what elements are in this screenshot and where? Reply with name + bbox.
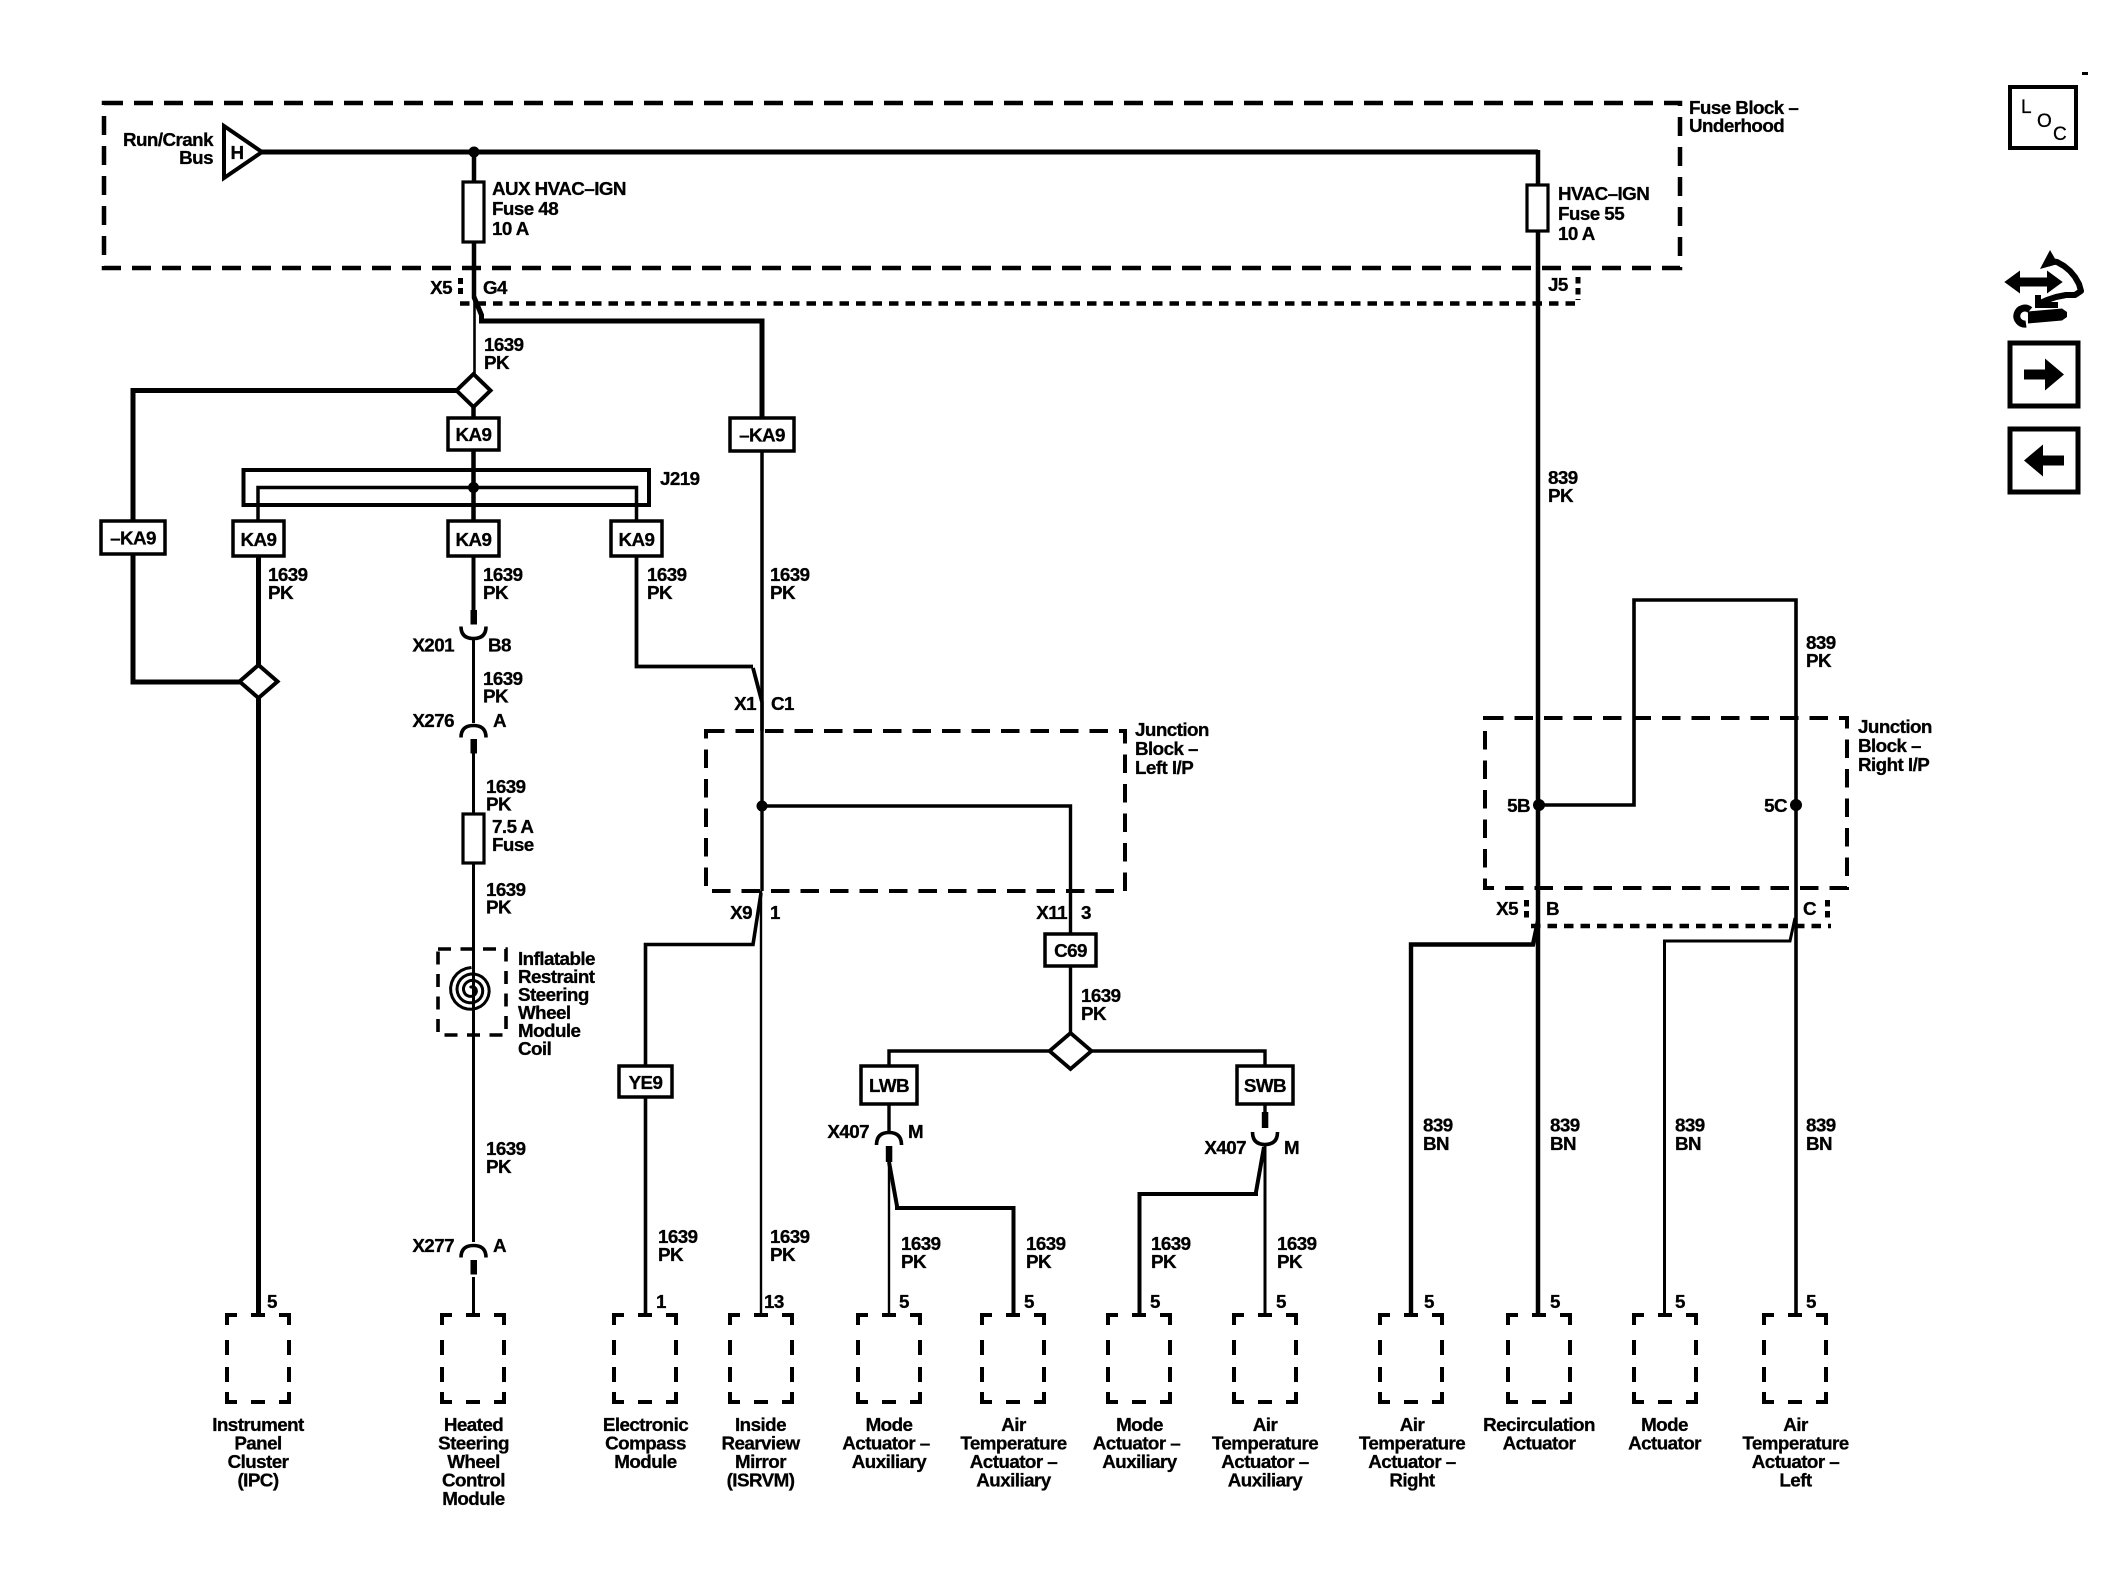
svg-text:X407: X407 xyxy=(827,1121,869,1142)
svg-text:5: 5 xyxy=(1276,1291,1286,1312)
net KA9 box 3 xyxy=(611,521,662,556)
wire -KA9 right down to X1 C1 xyxy=(760,451,764,731)
coil spiral xyxy=(451,968,490,1010)
svg-text:Module: Module xyxy=(442,1488,505,1509)
module box instrument panel cluster xyxy=(227,1315,289,1402)
svg-text:PK: PK xyxy=(484,352,510,373)
wire splice S2 to IPC xyxy=(256,698,261,1315)
wire C69 to splice S3 xyxy=(1069,966,1072,1034)
svg-text:5: 5 xyxy=(1024,1291,1034,1312)
splice diamond S2 xyxy=(240,665,278,698)
net SWB box xyxy=(1237,1066,1293,1104)
wire X407 right branch to mode actuator aux 2 xyxy=(1140,1147,1265,1315)
svg-text:5: 5 xyxy=(899,1291,909,1312)
wire ISRVM thin xyxy=(760,891,762,1315)
svg-text:YE9: YE9 xyxy=(629,1072,663,1093)
wire slant into C1 xyxy=(753,668,762,702)
svg-text:PK: PK xyxy=(647,582,673,603)
svg-text:BN: BN xyxy=(1423,1133,1449,1154)
wire bus corner down to fuse 55 xyxy=(1536,150,1541,185)
wire KA9-1 down to splice S2 xyxy=(256,556,261,665)
junction dot left IP xyxy=(757,801,768,812)
svg-text:C: C xyxy=(2053,124,2066,145)
net YE9 box xyxy=(619,1066,672,1097)
label air temperature actuator auxiliary 2 xyxy=(1212,1414,1318,1491)
connector J5 tick and label xyxy=(1548,274,1578,300)
module box air temperature actuator right xyxy=(1380,1315,1442,1402)
svg-text:B8: B8 xyxy=(488,635,511,656)
svg-text:PK: PK xyxy=(1026,1251,1052,1272)
label air temperature actuator left xyxy=(1742,1414,1848,1491)
svg-text:X201: X201 xyxy=(412,635,454,656)
connector X276 xyxy=(461,726,486,815)
svg-text:KA9: KA9 xyxy=(456,529,492,550)
connector X5 G4 dotted strip xyxy=(430,277,1576,304)
module box mode actuator auxiliary 1 xyxy=(858,1315,920,1402)
module box mode actuator xyxy=(1634,1315,1696,1402)
module box air temperature actuator auxiliary 2 xyxy=(1234,1315,1296,1402)
svg-text:13: 13 xyxy=(764,1291,784,1312)
svg-text:10 A: 10 A xyxy=(492,218,530,239)
wire KA9-2 down to X201 xyxy=(472,556,476,610)
svg-text:PK: PK xyxy=(658,1244,684,1265)
wire SWB to X407 xyxy=(1263,1104,1266,1112)
svg-text:C1: C1 xyxy=(771,693,794,714)
svg-text:3: 3 xyxy=(1081,902,1091,923)
svg-text:BN: BN xyxy=(1806,1133,1832,1154)
wire X9 slant branch to compass xyxy=(646,893,762,1066)
svg-text:C69: C69 xyxy=(1054,940,1087,961)
module box inside rearview mirror xyxy=(730,1315,792,1402)
wire fuse 55 down through J5 xyxy=(1536,231,1541,1315)
svg-text:X407: X407 xyxy=(1204,1137,1246,1158)
net LWB box xyxy=(861,1066,917,1104)
wire branch G4 to -KA9 right xyxy=(474,297,762,418)
connector X5 B C strip right xyxy=(1496,898,1831,926)
label instrument panel cluster xyxy=(212,1414,305,1491)
svg-text:PK: PK xyxy=(1806,650,1832,671)
svg-text:Actuator: Actuator xyxy=(1628,1433,1702,1454)
wire bus to fuse 48 xyxy=(472,152,477,182)
svg-text:M: M xyxy=(908,1121,923,1142)
svg-text:Junction: Junction xyxy=(1858,716,1932,737)
svg-text:KA9: KA9 xyxy=(241,529,277,550)
svg-text:5: 5 xyxy=(1424,1291,1434,1312)
svg-text:Junction: Junction xyxy=(1135,719,1209,740)
module box air temperature actuator auxiliary 1 xyxy=(982,1315,1044,1402)
svg-text:Fuse: Fuse xyxy=(492,834,534,855)
svg-text:X1: X1 xyxy=(734,693,756,714)
svg-text:PK: PK xyxy=(486,1156,512,1177)
net C69 box xyxy=(1045,934,1096,966)
fuse F48 xyxy=(463,182,484,242)
svg-text:Bus: Bus xyxy=(179,147,213,168)
splice diamond S3 xyxy=(1050,1033,1092,1069)
wire C1 through junction block xyxy=(760,702,763,806)
wire YE9 to compass module xyxy=(644,1097,648,1315)
net -KA9 right box xyxy=(730,418,794,451)
connector X407 right xyxy=(1253,1112,1278,1145)
LOC box icon xyxy=(2010,87,2076,148)
svg-text:Underhood: Underhood xyxy=(1689,115,1784,136)
svg-text:PK: PK xyxy=(770,582,796,603)
wire 5C down to C exit xyxy=(1794,805,1798,918)
wire X407 right to air temp aux 2 xyxy=(1264,1145,1267,1315)
svg-text:1: 1 xyxy=(770,902,780,923)
svg-text:5: 5 xyxy=(1675,1291,1685,1312)
svg-text:PK: PK xyxy=(770,1244,796,1265)
junction dot 5B xyxy=(1533,799,1545,811)
svg-text:SWB: SWB xyxy=(1244,1075,1286,1096)
svg-text:PK: PK xyxy=(483,582,509,603)
svg-text:(IPC): (IPC) xyxy=(237,1470,278,1491)
label mode actuator xyxy=(1628,1414,1702,1454)
svg-text:Block –: Block – xyxy=(1135,738,1198,759)
net KA9 box 1 xyxy=(233,521,284,556)
node H Run/Crank Bus triangle xyxy=(224,126,262,178)
svg-text:Right: Right xyxy=(1389,1470,1436,1491)
svg-text:Auxiliary: Auxiliary xyxy=(1228,1470,1303,1491)
wire C1 pin down to X9 xyxy=(760,806,763,891)
module box mode actuator auxiliary 2 xyxy=(1108,1315,1170,1402)
wire internal loop 5B to 5C xyxy=(1539,600,1796,805)
bus bar J219 inner xyxy=(258,488,637,522)
fuse block underhood dashed box xyxy=(104,103,1680,268)
net KA9 box 2 xyxy=(448,521,499,556)
svg-text:PK: PK xyxy=(1277,1251,1303,1272)
svg-text:X276: X276 xyxy=(412,710,454,731)
splice diamond S1 xyxy=(457,374,491,407)
wire junction to X11 xyxy=(762,806,1071,934)
junction dot 5C xyxy=(1790,799,1802,811)
svg-text:X5: X5 xyxy=(1496,898,1518,919)
svg-text:PK: PK xyxy=(1081,1003,1107,1024)
wire splice S3 to LWB xyxy=(889,1051,1052,1066)
svg-text:Fuse 55: Fuse 55 xyxy=(1558,203,1624,224)
svg-text:H: H xyxy=(230,142,243,163)
svg-text:5B: 5B xyxy=(1507,795,1530,816)
junction block left IP dashed box xyxy=(706,731,1125,891)
icon arrow left box xyxy=(2010,429,2078,492)
wire fuse 48 down to G4 xyxy=(472,242,477,298)
svg-text:PK: PK xyxy=(1151,1251,1177,1272)
svg-text:Actuator: Actuator xyxy=(1503,1433,1577,1454)
svg-text:10 A: 10 A xyxy=(1558,223,1596,244)
label electronic compass module xyxy=(603,1414,688,1472)
svg-text:5C: 5C xyxy=(1764,795,1788,816)
svg-text:C: C xyxy=(1803,898,1817,919)
svg-text:Coil: Coil xyxy=(518,1038,551,1059)
svg-text:O: O xyxy=(2037,111,2051,132)
wire LWB to X407 xyxy=(887,1104,890,1132)
svg-text:J5: J5 xyxy=(1548,274,1568,295)
connector X407 left xyxy=(877,1133,902,1163)
svg-text:5: 5 xyxy=(1150,1291,1160,1312)
svg-text:PK: PK xyxy=(483,686,509,707)
svg-text:PK: PK xyxy=(1548,485,1574,506)
net KA9 top box xyxy=(448,418,499,450)
label mode actuator auxiliary 2 xyxy=(1093,1414,1180,1472)
svg-text:B: B xyxy=(1546,898,1559,919)
module box heated steering wheel control module xyxy=(442,1315,504,1402)
wire splice S3 to SWB xyxy=(1090,1051,1266,1066)
junction dot on bus xyxy=(469,147,480,158)
svg-text:LWB: LWB xyxy=(869,1075,909,1096)
label air temperature actuator right xyxy=(1359,1414,1465,1491)
svg-text:Fuse 48: Fuse 48 xyxy=(492,198,558,219)
wire KA9-3 corner to X1 xyxy=(637,556,754,667)
wire fuse to coil xyxy=(472,863,475,1242)
junction dot J219 xyxy=(468,482,479,493)
svg-text:L: L xyxy=(2021,97,2031,118)
wire C slant branch to mode actuator xyxy=(1665,918,1796,1315)
svg-text:Left I/P: Left I/P xyxy=(1135,757,1193,778)
svg-text:Block –: Block – xyxy=(1858,735,1921,756)
svg-text:Module: Module xyxy=(614,1451,677,1472)
svg-text:X11: X11 xyxy=(1036,902,1067,923)
wire 1639 PK G4 down to splice xyxy=(473,290,476,375)
module box electronic compass module xyxy=(614,1315,676,1402)
wire splice to left branch xyxy=(133,391,457,522)
svg-text:5: 5 xyxy=(1806,1291,1816,1312)
bus bar J219 outer xyxy=(244,470,650,505)
svg-text:X9: X9 xyxy=(730,902,752,923)
wire bus horizontal xyxy=(262,150,1538,155)
wire B slant branch to air temp right xyxy=(1411,921,1538,1315)
svg-text:J219: J219 xyxy=(660,468,700,489)
label heated steering wheel control module xyxy=(438,1414,509,1509)
wire KA9 top box to J219 bus xyxy=(471,450,476,521)
label mode actuator auxiliary 1 xyxy=(842,1414,929,1472)
svg-text:HVAC–IGN: HVAC–IGN xyxy=(1558,183,1649,204)
module box air temperature actuator left xyxy=(1764,1315,1826,1402)
svg-text:A: A xyxy=(493,710,507,731)
svg-text:5: 5 xyxy=(1550,1291,1560,1312)
tiny mark top right xyxy=(2082,72,2088,75)
svg-text:X277: X277 xyxy=(412,1235,454,1256)
svg-text:M: M xyxy=(1284,1137,1299,1158)
fuse F55 xyxy=(1527,185,1548,231)
wire X407 left to mode actuator aux xyxy=(888,1162,890,1315)
svg-text:PK: PK xyxy=(486,794,512,815)
junction block right IP dashed box xyxy=(1485,718,1847,888)
label recirculation actuator xyxy=(1483,1414,1595,1454)
net -KA9 left box xyxy=(101,521,165,554)
svg-text:BN: BN xyxy=(1675,1133,1701,1154)
svg-text:BN: BN xyxy=(1550,1133,1576,1154)
svg-text:Left: Left xyxy=(1779,1470,1813,1491)
connector X201 xyxy=(461,610,486,723)
svg-text:AUX HVAC–IGN: AUX HVAC–IGN xyxy=(492,178,626,199)
connector X277 xyxy=(461,1246,486,1316)
coil dashed box inflatable restraint xyxy=(438,949,506,1035)
svg-text:Auxiliary: Auxiliary xyxy=(976,1470,1051,1491)
svg-text:Right I/P: Right I/P xyxy=(1858,754,1929,775)
svg-text:A: A xyxy=(493,1235,507,1256)
label inside rearview mirror xyxy=(721,1414,800,1491)
svg-text:(ISRVM): (ISRVM) xyxy=(727,1470,795,1491)
label air temperature actuator auxiliary 1 xyxy=(960,1414,1066,1491)
fuse 7.5A xyxy=(463,814,484,863)
wire -KA9 left to splice S2 xyxy=(133,554,240,682)
svg-text:PK: PK xyxy=(486,897,512,918)
svg-text:G4: G4 xyxy=(483,277,508,298)
svg-text:PK: PK xyxy=(901,1251,927,1272)
icon service curved arrow and wrench xyxy=(2006,250,2081,324)
icon arrow right box xyxy=(2010,343,2078,406)
wire X407 left branch to air temp aux xyxy=(889,1162,1014,1315)
svg-text:X5: X5 xyxy=(430,277,452,298)
svg-text:KA9: KA9 xyxy=(619,529,655,550)
wire splice down to KA9 xyxy=(471,407,476,418)
svg-text:–KA9: –KA9 xyxy=(110,528,156,549)
svg-text:KA9: KA9 xyxy=(456,424,492,445)
svg-text:Auxiliary: Auxiliary xyxy=(1102,1451,1177,1472)
module box recirculation actuator xyxy=(1508,1315,1570,1402)
svg-text:–KA9: –KA9 xyxy=(739,425,785,446)
svg-text:5: 5 xyxy=(267,1291,277,1312)
svg-text:Auxiliary: Auxiliary xyxy=(852,1451,927,1472)
wire air temp left xyxy=(1794,918,1798,1315)
svg-text:PK: PK xyxy=(268,582,294,603)
svg-text:1: 1 xyxy=(656,1291,666,1312)
